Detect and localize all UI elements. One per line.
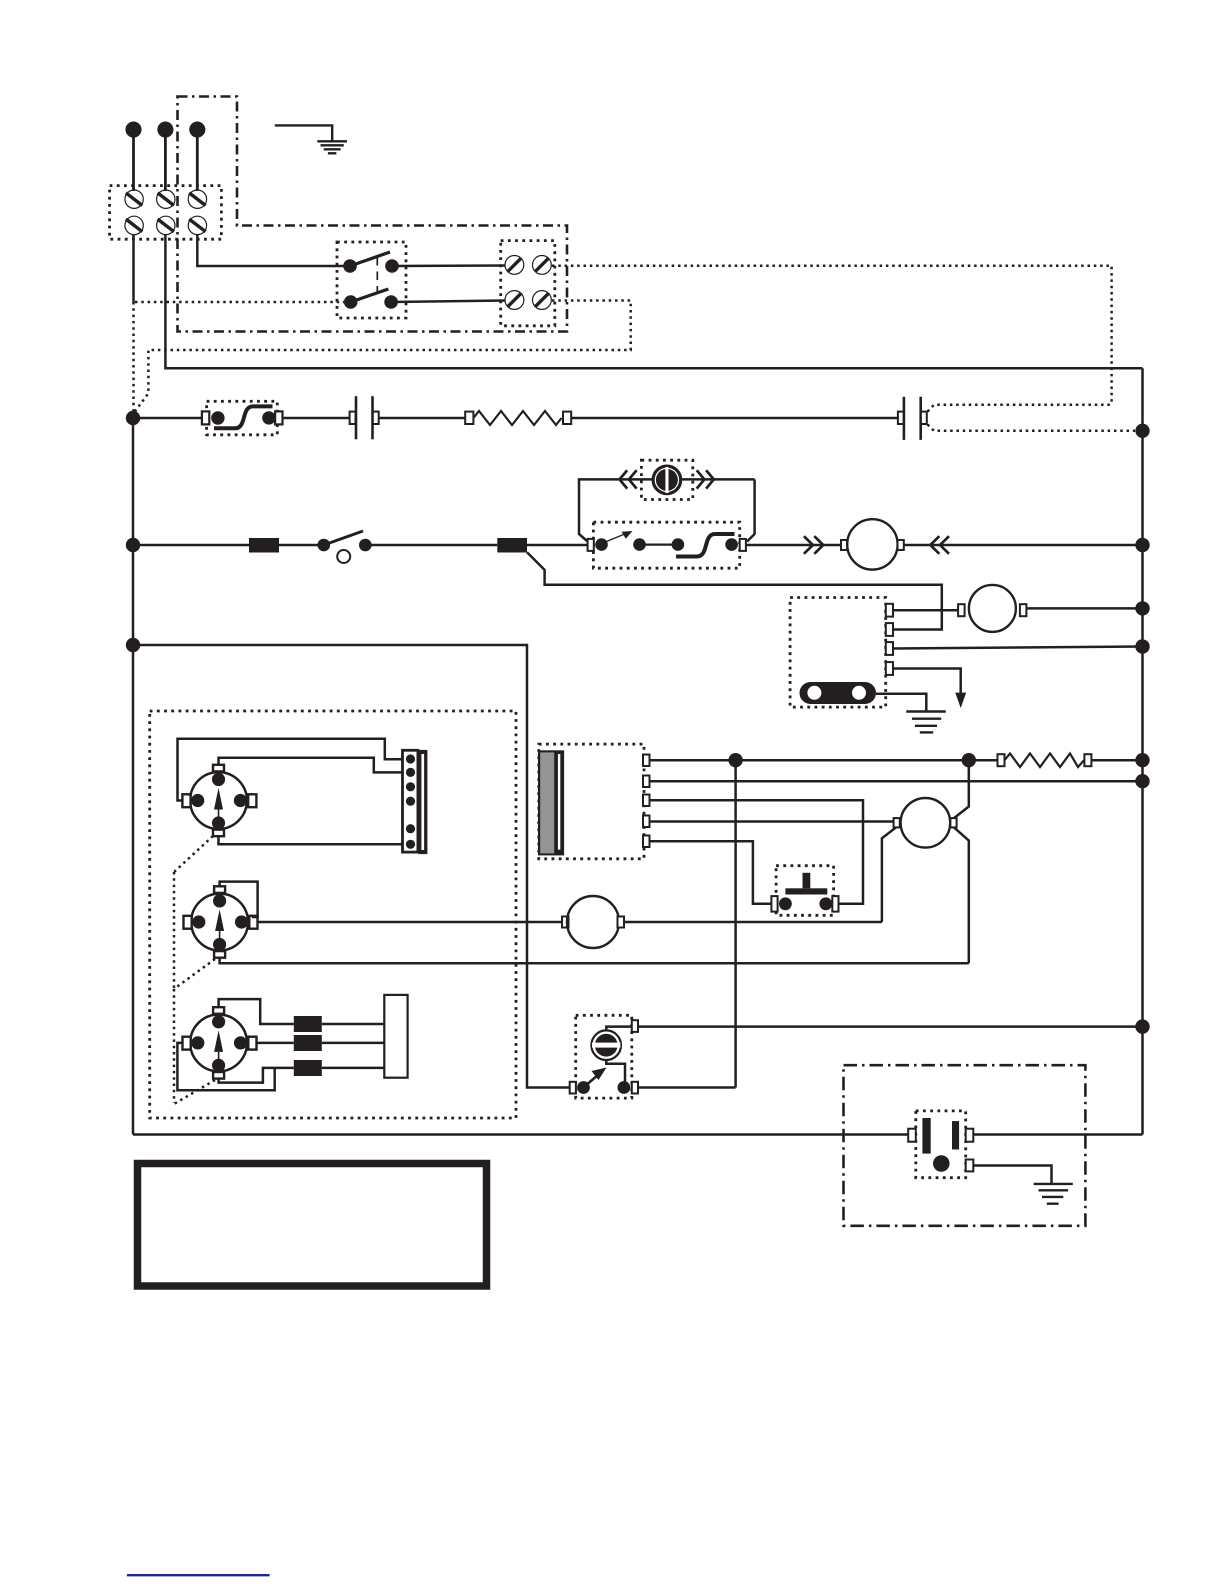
screw terminal TB1-3 <box>188 190 206 208</box>
receptacle ground pin <box>933 1155 950 1172</box>
wire ground terminal to earth <box>973 1166 1051 1184</box>
vertical wire K1 to oven selector <box>734 760 737 1087</box>
G_SURFACE <box>133 645 969 1118</box>
earth ground symbol (outlet) <box>1034 1184 1073 1204</box>
wire bake motor to bus <box>1026 607 1142 610</box>
wire T1 to bake motor <box>893 609 958 612</box>
wire R1 to element block <box>322 1023 385 1026</box>
left bus <box>132 418 135 1135</box>
wire motor right up to K1 row (diagonal) <box>954 760 969 818</box>
bottom wire receptacle to right bus <box>973 1133 1142 1136</box>
wire SU1 left terminal loop <box>178 739 403 801</box>
right bus <box>1141 368 1144 1134</box>
footer rule (blue) <box>127 1574 270 1576</box>
connector chevron (points left) <box>930 536 949 554</box>
screw terminal TB1-4 <box>125 216 143 234</box>
relay terminal T4 <box>886 662 893 675</box>
bake motor (circle) <box>969 585 1016 632</box>
thermostat contact link <box>640 543 678 545</box>
dotted mech link SU2 <box>174 959 215 989</box>
G_BOTTOM <box>127 1065 1143 1575</box>
receptacle right terminal <box>966 1129 974 1142</box>
wire T3 to bus <box>893 647 1143 649</box>
thermal switch actuator circle <box>337 550 350 563</box>
wire pole1 to TB2 <box>392 264 505 267</box>
resistor (wire element) terminals <box>465 412 473 424</box>
wire row2 left <box>133 544 249 547</box>
timer terminal K3 <box>643 795 650 807</box>
junction right bus bake motor <box>1135 601 1149 615</box>
wire from TB1-4 dotted to junction <box>132 302 135 413</box>
relay control box (dotted) <box>790 598 886 708</box>
wire <box>371 544 498 547</box>
chassis ground symbol (top) <box>275 125 347 153</box>
connector chevron (points right) <box>804 536 823 554</box>
ground symbol (relay) <box>906 712 946 733</box>
junction right bus K2 <box>1135 774 1149 788</box>
node L1 supply <box>127 123 141 137</box>
bottom wire left bus to receptacle <box>133 1133 908 1136</box>
door switch contacts <box>779 897 792 910</box>
oven selector contacts <box>577 1081 590 1094</box>
oven lamp (dotted box) <box>641 460 692 499</box>
oven selector switch (dotted box) <box>576 1015 632 1098</box>
wire K2 row to bus <box>650 780 1143 783</box>
SU1 infinite switch connector bar <box>403 750 428 854</box>
node L2 supply <box>159 123 173 137</box>
thermostat left terminal <box>588 539 594 551</box>
fusible link F1 <box>249 538 279 553</box>
wire SU2 right terminal to oven light <box>258 921 566 924</box>
wire dotted to door-lock switch lower pole <box>135 301 344 304</box>
screw terminal TB2-3 <box>505 291 524 310</box>
convection motor <box>901 798 951 848</box>
surface units enclosure (dotted box) <box>150 711 516 1118</box>
oven thermostat (dotted box) <box>593 522 739 568</box>
SU3 limit resistor R1 <box>294 1016 322 1032</box>
relay terminal T1 <box>886 604 893 617</box>
SU3 limit resistor R3 <box>294 1060 322 1076</box>
wire motor left to light row (diagonal) <box>882 827 896 922</box>
limiter contacts <box>211 411 224 424</box>
wire K1 row <box>650 759 998 762</box>
receptacle slot left <box>922 1118 930 1154</box>
wire to fan connector <box>746 544 841 547</box>
junction right bus row2 <box>1135 538 1149 552</box>
wire L3 lead <box>196 136 199 191</box>
resistor on K1 row terminals <box>998 754 1005 766</box>
oven light left terminal <box>562 917 569 928</box>
broil element connector (plug contacts) <box>898 397 927 440</box>
surface unit SU1 (circle with contacts) <box>182 765 256 836</box>
wire L1 lead <box>132 136 135 191</box>
junction left bus row1 <box>126 411 140 425</box>
accessory outlet enclosure (dash-dot box) <box>844 1065 1086 1226</box>
wire resistor to bus <box>1091 759 1142 762</box>
screw terminal TB2-1 <box>505 256 524 275</box>
fusible link F2 <box>497 538 527 553</box>
fan motor left terminal <box>841 540 847 550</box>
wire sensor bottom to right contact <box>606 1061 625 1082</box>
screw terminal TB2-4 <box>533 291 552 310</box>
receptacle left terminal <box>908 1129 916 1142</box>
thermal switch contacts <box>318 539 331 552</box>
wire K3 to door switch right <box>650 800 864 904</box>
convection motor left terminal <box>894 818 900 827</box>
wire resistor to broil connector <box>571 417 898 420</box>
SU3 limit resistor R2 <box>294 1035 322 1051</box>
door switch (dotted box) <box>776 866 834 916</box>
door switch plunger <box>803 873 811 889</box>
junction left bus row2 <box>126 538 140 552</box>
terminal block TB2 (dotted box) <box>501 241 555 326</box>
wire from TB1-5 down <box>165 235 1142 369</box>
wire SU1 top terminal <box>219 758 403 773</box>
door lock switch (dotted box) <box>337 242 406 318</box>
connector chevron right (double V) <box>697 470 714 488</box>
wire dotted TB2-4 loop back to left bus junction <box>135 301 631 413</box>
screw terminal TB1-2 <box>157 190 175 208</box>
timer terminal K1 <box>643 755 650 767</box>
wire row3 from left bus <box>133 645 570 1088</box>
wire from F2 to relay T2 <box>527 552 942 629</box>
wire sensor top to terminal <box>606 1027 632 1031</box>
wire lamp to chevron <box>682 478 755 481</box>
G_ROW2 <box>133 460 1150 569</box>
wire from TB1-4 solid part <box>132 235 135 302</box>
wire K4 to convection motor <box>650 820 894 823</box>
wire SU2 top terminal loop <box>220 882 258 917</box>
limiter left terminal <box>202 411 209 424</box>
bake element connector (plug contacts) <box>350 396 379 439</box>
resistor zigzag <box>473 411 561 425</box>
wire selector top terminal to bus <box>638 1025 1143 1028</box>
wire limiter to connector <box>282 417 350 420</box>
relay coil (black capsule) <box>800 682 877 704</box>
wire motor right down to SU2 row (diagonal) <box>954 827 969 963</box>
oven selector wiper arrow <box>585 1068 607 1087</box>
switch pole 1 contacts <box>343 259 357 273</box>
oven lamp symbol <box>653 466 681 494</box>
thermostat bimetal S-curve <box>676 534 735 557</box>
junction right bus K1 <box>1135 753 1149 767</box>
junction K1/motor vertical <box>962 753 976 767</box>
relay terminal T2 <box>886 623 893 636</box>
door switch left terminal <box>771 896 777 912</box>
junction right bus row1 <box>1135 424 1149 438</box>
oven selector right terminal <box>632 1082 638 1094</box>
thermostat wiper arrow <box>604 531 633 543</box>
wire R3 to element block <box>322 1067 385 1070</box>
G_RELAY <box>527 552 1150 732</box>
wire dotted TB2-2 to broil element (top run) <box>552 266 1112 404</box>
bake motor right terminal <box>1020 604 1027 616</box>
wire T4 to chassis arrow <box>893 669 961 698</box>
oven selector left terminal <box>570 1082 576 1094</box>
wire to right bus <box>904 544 1143 547</box>
receptacle ground terminal <box>966 1160 974 1172</box>
junction K1/oven switch vertical <box>728 753 742 767</box>
oven selector top terminal <box>632 1020 638 1032</box>
switch pole 1 blade <box>350 252 390 266</box>
screw terminal TB1-5 <box>157 216 175 234</box>
fan motor right terminal <box>898 540 904 550</box>
wire to resistor <box>379 417 466 420</box>
bypass loop right leg <box>747 479 755 541</box>
wire SU1 bottom terminal <box>219 836 403 844</box>
bake motor left terminal <box>958 604 965 616</box>
wire <box>279 544 318 547</box>
chassis arrow head <box>955 693 966 708</box>
convection motor right terminal <box>950 818 956 827</box>
G_TIMER <box>538 744 1150 1098</box>
timer terminal K4 <box>643 816 650 828</box>
limiter bimetal S-curve <box>214 406 273 428</box>
timer terminal K2 <box>643 776 650 788</box>
thermostat contacts <box>595 538 608 551</box>
G_ROW1 <box>126 368 1150 1134</box>
switch pole 2 blade <box>351 289 389 302</box>
chassis dash-dot outline <box>178 97 568 332</box>
G_TOPLEFT <box>110 97 1143 414</box>
timer display bar <box>538 750 564 855</box>
wire SU3 top terminal loop <box>219 999 294 1024</box>
oven sensor symbol (circle) <box>591 1030 621 1060</box>
thermal limiter (dotted box) <box>207 401 278 435</box>
thermostat right terminal <box>740 539 746 551</box>
SU3 element block <box>384 995 407 1078</box>
screw terminal TB1-1 <box>125 190 143 208</box>
wire to oven thermostat <box>527 544 588 547</box>
wire K5 to door switch left <box>650 841 772 904</box>
limiter right terminal <box>275 411 282 424</box>
timer terminal K5 <box>643 836 650 848</box>
terminal block TB1 (dotted box) <box>110 186 222 240</box>
screw terminal TB2-2 <box>533 256 552 275</box>
thermal switch blade <box>324 531 363 545</box>
receptacle (dotted box) <box>916 1111 966 1178</box>
oven fan motor <box>847 519 897 569</box>
door switch right terminal <box>832 896 838 912</box>
junction left bus row3 <box>126 638 140 652</box>
dotted mech link SU3 <box>174 1080 215 1104</box>
wire row1 left <box>133 417 203 420</box>
junction right bus selector <box>1135 1019 1149 1033</box>
relay terminal T3 <box>886 642 893 655</box>
wire SU2 bottom terminal row <box>220 958 969 964</box>
wire coil to ground <box>876 694 926 712</box>
wire L2 lead <box>164 136 167 191</box>
receptacle slot right <box>952 1121 959 1149</box>
wire from TB1-6 to switch <box>197 235 344 266</box>
switch pole 2 contacts <box>344 295 358 309</box>
wire R2 to element block <box>322 1042 385 1045</box>
dotted mech link SU1 <box>174 836 213 872</box>
node L3 supply <box>191 123 205 137</box>
surface unit SU3 (circle with contacts) <box>183 1007 257 1078</box>
wire pole2 to TB2 <box>391 301 505 303</box>
bypass loop left leg <box>579 479 652 541</box>
timer / clock control (dotted box) <box>539 744 644 859</box>
wire selector right terminal to vertical <box>638 1086 736 1089</box>
resistor on K1 row zigzag <box>1005 754 1085 768</box>
oven light (circle) <box>567 896 619 948</box>
junction right bus T3 <box>1135 639 1149 653</box>
wire SU3 bottom terminal <box>219 1068 294 1083</box>
legend box (empty) <box>138 1164 487 1287</box>
wire SU3 right terminal <box>257 1042 294 1045</box>
wire light to motor diagonal leg <box>624 921 882 924</box>
screw terminal TB1-6 <box>188 216 206 234</box>
oven light right terminal <box>618 917 625 928</box>
surface unit SU2 (circle with contacts) <box>184 886 258 957</box>
connector chevron left (double V) <box>620 470 637 488</box>
wire SU3 left terminal loop <box>177 1043 274 1090</box>
broil element (dotted outline) <box>928 405 1136 431</box>
switch mechanical link (dashed) <box>376 257 378 294</box>
